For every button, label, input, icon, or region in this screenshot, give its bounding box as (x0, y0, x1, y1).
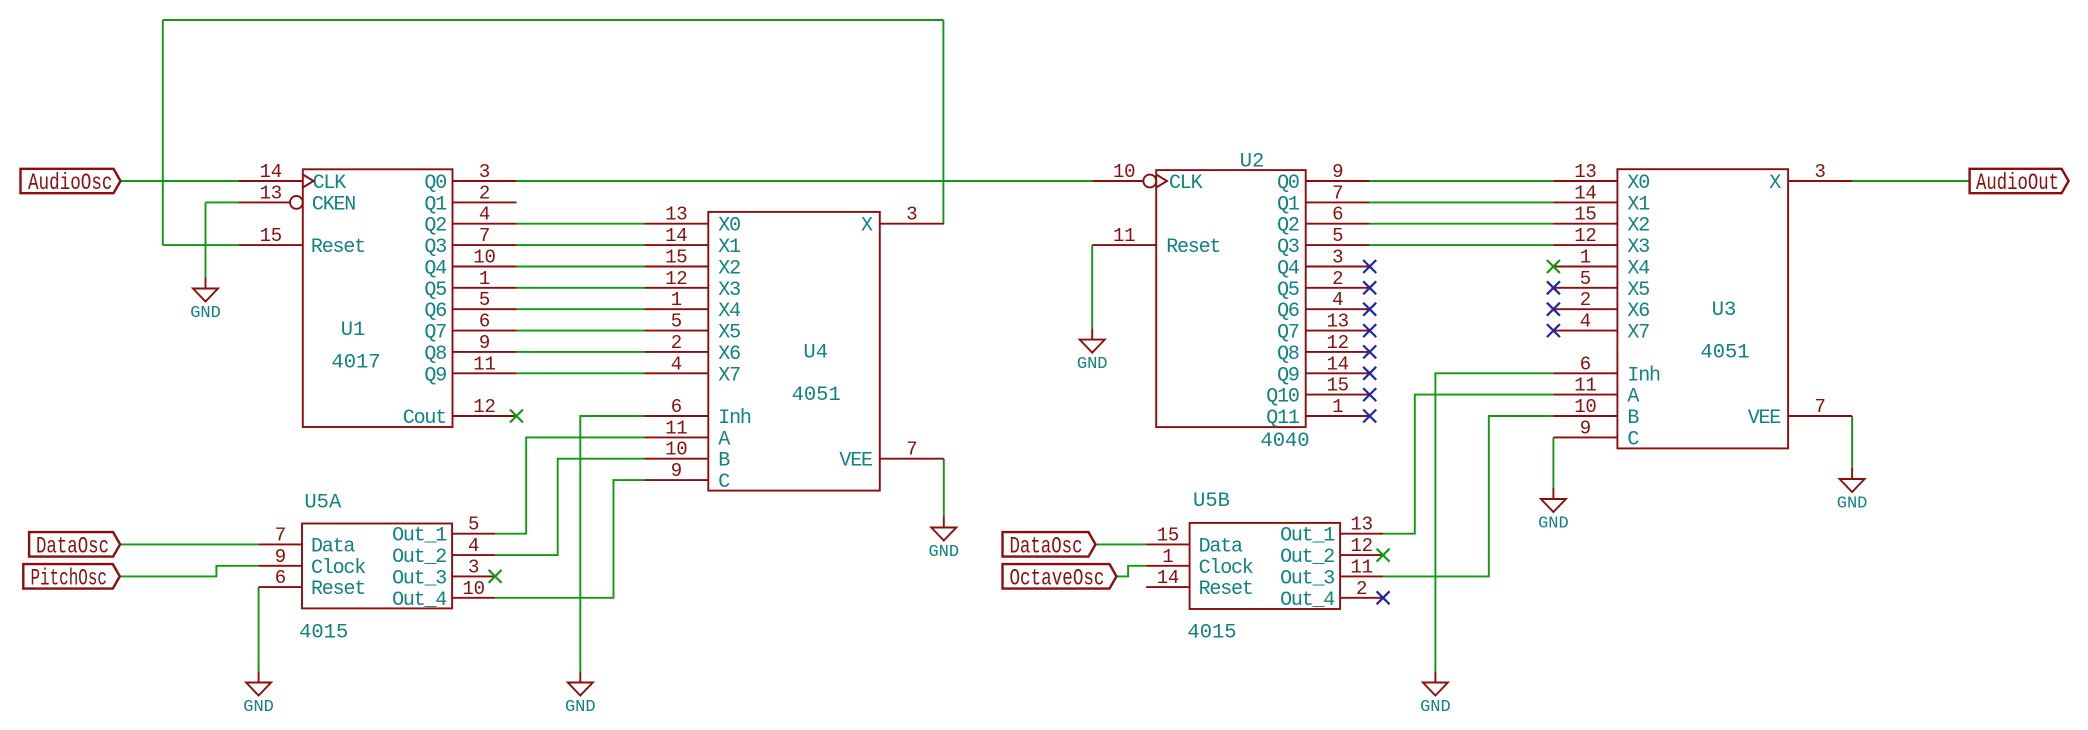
wire U2 Q0 to U3 X0 (1370, 180, 1554, 182)
U1 pin 13 CKEN (inverted) (239, 182, 303, 208)
no-connect U3 X5 pin 5 (1547, 281, 1560, 294)
svg-text:GND: GND (1837, 495, 1868, 514)
svg-text:10: 10 (665, 439, 687, 461)
svg-text:6: 6 (1580, 353, 1591, 375)
svg-text:11: 11 (665, 417, 687, 439)
U3 pin 4 X7 (1553, 311, 1617, 333)
svg-text:Q3: Q3 (424, 236, 446, 259)
svg-text:PitchOsc: PitchOsc (31, 565, 108, 591)
svg-text:Reset: Reset (311, 578, 365, 601)
svg-text:13: 13 (260, 182, 282, 204)
no-connect U5B Out_2 pin 12 (1377, 549, 1390, 562)
ground GND for U3 Inh net (1420, 672, 1451, 718)
svg-text:X: X (861, 215, 873, 238)
svg-text:Q10: Q10 (1266, 386, 1299, 409)
no-connect U2 Q11 (1363, 410, 1376, 423)
U1 pin 1 Q5 (453, 268, 517, 290)
svg-text:14: 14 (665, 225, 687, 247)
svg-text:B: B (1627, 407, 1639, 430)
svg-text:Q1: Q1 (1277, 193, 1300, 216)
svg-text:U3: U3 (1712, 299, 1737, 322)
svg-text:CKEN: CKEN (312, 193, 355, 216)
svg-text:Q1: Q1 (424, 193, 447, 216)
svg-text:12: 12 (473, 396, 495, 418)
U5A pin 5 Out_1 (452, 514, 495, 536)
wire U1 CKEN pin 13 stub to GND drop (206, 201, 239, 203)
svg-text:C: C (718, 471, 730, 494)
svg-text:11: 11 (1350, 556, 1372, 578)
U1 pin 10 Q4 (453, 247, 517, 269)
svg-text:GND: GND (243, 698, 274, 717)
ground GND under U5A Reset (243, 672, 274, 718)
svg-text:U5A: U5A (304, 491, 342, 514)
no-connect U3 X7 pin 4 (1547, 324, 1560, 337)
svg-text:Out_4: Out_4 (1280, 589, 1334, 612)
wire U2 Reset to ground (1091, 245, 1093, 329)
U5B pin 11 Out_3 (1340, 556, 1383, 578)
svg-text:Q6: Q6 (424, 300, 446, 323)
svg-text:13: 13 (665, 204, 687, 226)
wire U5B Out_3 to U3 B (1383, 416, 1553, 576)
svg-text:Reset: Reset (1199, 578, 1253, 601)
svg-text:7: 7 (1332, 182, 1343, 204)
no-connect U3 X4 pin 1 (1547, 260, 1560, 273)
U5B pin 1 Clock (1146, 546, 1189, 568)
svg-text:Q7: Q7 (424, 322, 446, 345)
svg-text:9: 9 (1332, 161, 1343, 183)
svg-text:1: 1 (671, 289, 682, 311)
svg-text:Data: Data (311, 535, 355, 558)
svg-text:GND: GND (1538, 515, 1569, 534)
ground GND under U3 C (1538, 488, 1569, 534)
svg-text:7: 7 (906, 439, 917, 461)
svg-text:B: B (718, 450, 730, 473)
svg-text:9: 9 (671, 460, 682, 482)
svg-text:4040: 4040 (1260, 430, 1309, 453)
svg-text:Q9: Q9 (1277, 364, 1299, 387)
global label DataOsc (left) (29, 532, 120, 559)
U2 pin 11 Reset (1092, 225, 1156, 247)
svg-text:7: 7 (479, 225, 490, 247)
wire PitchOsc to U5A Clock (120, 566, 259, 577)
global label AudioOut (output) (1970, 169, 2069, 196)
svg-text:2: 2 (1332, 268, 1343, 290)
svg-text:X1: X1 (1627, 193, 1650, 216)
svg-text:DataOsc: DataOsc (1010, 533, 1083, 559)
wire feedback into U1 Reset pin 15 (163, 244, 239, 246)
svg-text:Data: Data (1199, 535, 1243, 558)
svg-text:5: 5 (1580, 268, 1591, 290)
U3 pin 10 B (1553, 396, 1617, 418)
svg-text:14: 14 (260, 161, 282, 183)
U1 pin 11 Q9 (453, 353, 517, 375)
svg-text:13: 13 (1326, 311, 1348, 333)
svg-text:2: 2 (479, 182, 490, 204)
U3 pin 9 C (1553, 417, 1617, 439)
svg-text:X4: X4 (718, 300, 740, 323)
U3 pin 3 X output (1788, 161, 1852, 183)
no-connect U2 Q10 (1363, 388, 1376, 401)
svg-text:CLK: CLK (313, 172, 347, 195)
no-connect U5B Out_4 pin 2 (1377, 591, 1390, 604)
svg-text:1: 1 (479, 268, 490, 290)
svg-text:Out_4: Out_4 (392, 589, 446, 612)
svg-text:6: 6 (275, 567, 286, 589)
svg-text:5: 5 (468, 514, 479, 536)
U2 pin 4 Q6 (1306, 289, 1370, 311)
wire U5B Out_1 to U3 A (1383, 395, 1553, 534)
svg-text:2: 2 (671, 332, 682, 354)
svg-text:3: 3 (479, 161, 490, 183)
svg-text:GND: GND (928, 543, 959, 562)
svg-text:VEE: VEE (1748, 407, 1781, 430)
U5B pin 14 Reset (1146, 567, 1189, 589)
svg-text:11: 11 (1574, 375, 1596, 397)
U5A pin 3 Out_3 (452, 556, 495, 578)
svg-text:X4: X4 (1627, 258, 1649, 281)
U4 pin 2 X6 (644, 332, 708, 354)
no-connect U2 Q9 (1363, 367, 1376, 380)
no-connect U2 Q4 (1363, 260, 1376, 273)
wire U1 Q6 to U4 X4 (517, 308, 645, 310)
no-connect U2 Q5 (1363, 281, 1376, 294)
U3 pin 12 X3 (1553, 225, 1617, 247)
svg-text:GND: GND (565, 698, 596, 717)
global label DataOsc (right) (1003, 532, 1096, 559)
U3 pin 2 X6 (1553, 289, 1617, 311)
ground GND under U3 VEE (1837, 468, 1868, 514)
svg-text:10: 10 (1113, 161, 1135, 183)
svg-text:4015: 4015 (299, 622, 348, 645)
U1 pin 9 Q8 (453, 332, 517, 354)
svg-text:C: C (1627, 428, 1639, 451)
U1 pin 7 Q3 (453, 225, 517, 247)
wire U2 Q2 to U3 X2 (1370, 223, 1554, 225)
U1 pin 6 Q7 (453, 311, 517, 333)
ground GND under U4 VEE (928, 517, 959, 563)
svg-text:AudioOsc: AudioOsc (28, 170, 113, 196)
svg-text:15: 15 (260, 225, 282, 247)
global label AudioOsc (input) (21, 169, 121, 196)
svg-text:12: 12 (1574, 225, 1596, 247)
global label OctaveOsc (1003, 564, 1117, 591)
svg-text:X3: X3 (718, 279, 740, 302)
svg-text:12: 12 (1326, 332, 1348, 354)
U3 pin 5 X5 (1553, 268, 1617, 290)
U4 pin 5 X5 (644, 311, 708, 333)
svg-text:AudioOut: AudioOut (1976, 170, 2059, 196)
svg-text:Q7: Q7 (1277, 322, 1299, 345)
wire U4 Inh to ground (580, 416, 644, 672)
no-connect U1 Cout pin 12 (510, 410, 523, 423)
IC body U2 (4040 binary counter) (1156, 150, 1309, 453)
svg-text:1: 1 (1332, 396, 1343, 418)
wire feedback right vertical down to U4 X pin (942, 20, 944, 224)
svg-text:X0: X0 (1627, 172, 1649, 195)
U4 pin 9 C (644, 460, 708, 482)
IC body U5B (4015 shift register) (1187, 490, 1340, 645)
U4 pin 6 Inh (644, 396, 708, 418)
svg-text:4: 4 (1332, 289, 1343, 311)
svg-text:X5: X5 (718, 322, 740, 345)
svg-text:9: 9 (479, 332, 490, 354)
svg-text:6: 6 (671, 396, 682, 418)
global label PitchOsc (23, 564, 120, 591)
svg-text:X1: X1 (718, 236, 741, 259)
svg-text:Reset: Reset (1166, 236, 1220, 259)
wire U5A Out_4 to U4 C (495, 480, 644, 598)
ground GND for U4 Inh net (565, 672, 596, 718)
svg-text:Out_2: Out_2 (392, 546, 446, 569)
svg-text:15: 15 (1574, 204, 1596, 226)
svg-text:Reset: Reset (311, 236, 365, 259)
svg-text:4051: 4051 (1700, 342, 1749, 365)
svg-text:GND: GND (1420, 698, 1451, 717)
svg-text:Inh: Inh (718, 407, 751, 430)
svg-text:6: 6 (479, 311, 490, 333)
svg-text:4: 4 (479, 204, 490, 226)
U3 pin 13 X0 (1553, 161, 1617, 183)
svg-text:X0: X0 (718, 215, 740, 238)
svg-text:11: 11 (473, 353, 495, 375)
U5B pin 12 Out_2 (1340, 535, 1383, 557)
IC body U5A (4015 shift register) (299, 491, 452, 644)
svg-text:11: 11 (1113, 225, 1135, 247)
U5A pin 7 Data (259, 524, 302, 546)
svg-text:Cout: Cout (403, 407, 446, 430)
U2 pin 7 Q1 (1306, 182, 1370, 204)
svg-text:9: 9 (1580, 417, 1591, 439)
svg-text:Q0: Q0 (424, 172, 446, 195)
svg-text:Clock: Clock (1199, 557, 1253, 580)
wire U1 Q9 to U4 X7 (517, 372, 645, 374)
svg-text:X7: X7 (718, 364, 740, 387)
svg-text:Q0: Q0 (1277, 172, 1299, 195)
svg-text:U1: U1 (341, 319, 366, 342)
svg-text:4051: 4051 (792, 384, 841, 407)
svg-text:13: 13 (1574, 161, 1596, 183)
U5B pin 13 Out_1 (1340, 514, 1383, 536)
U2 pin 6 Q2 (1306, 204, 1370, 226)
svg-text:4017: 4017 (331, 352, 380, 375)
svg-text:Inh: Inh (1627, 364, 1660, 387)
U4 pin 13 X0 (644, 204, 708, 226)
U1 pin 3 Q0 (453, 161, 517, 183)
svg-text:Q8: Q8 (424, 343, 446, 366)
U4 pin 3 X output (880, 204, 944, 226)
svg-text:3: 3 (1332, 247, 1343, 269)
U2 pin 1 Q11 (1306, 396, 1370, 418)
wire vertical CKEN net down to ground (205, 202, 207, 277)
svg-text:Q8: Q8 (1277, 343, 1299, 366)
U1 pin 15 Reset (239, 225, 303, 247)
wire AudioOsc to U1 CLK pin (121, 180, 239, 182)
wire U1 Q5 to U4 X3 (517, 287, 645, 289)
U5A pin 6 Reset (259, 567, 302, 589)
svg-text:X: X (1769, 172, 1781, 195)
U2 pin 3 Q4 (1306, 247, 1370, 269)
svg-text:4: 4 (468, 535, 479, 557)
ground GND under U2 Reset (1077, 329, 1108, 375)
svg-text:A: A (1627, 386, 1639, 409)
svg-text:OctaveOsc: OctaveOsc (1010, 565, 1105, 591)
svg-text:A: A (718, 428, 730, 451)
svg-text:13: 13 (1350, 514, 1372, 536)
U3 pin 15 X2 (1553, 204, 1617, 226)
svg-text:Q9: Q9 (424, 364, 446, 387)
wire DataOsc to U5B Data (1096, 543, 1147, 545)
svg-text:1: 1 (1162, 546, 1173, 568)
svg-text:Q2: Q2 (424, 215, 446, 238)
svg-text:14: 14 (1574, 182, 1596, 204)
IC body U3 (4051 analog multiplexer) (1617, 169, 1788, 451)
wire U5A Out_1 to U4 A (495, 437, 644, 533)
wire U5A Reset to ground (258, 587, 260, 671)
svg-text:3: 3 (906, 204, 917, 226)
svg-text:Out_1: Out_1 (392, 525, 447, 548)
wire DataOsc to U5A Data (120, 543, 259, 545)
U2 pin 2 Q5 (1306, 268, 1370, 290)
U1 pin 14 CLK (239, 161, 314, 188)
wire U1 Q8 to U4 X6 (517, 351, 645, 353)
svg-text:X3: X3 (1627, 236, 1649, 259)
U1 pin 12 Cout (453, 396, 517, 418)
svg-text:4: 4 (671, 353, 682, 375)
svg-text:5: 5 (1332, 225, 1343, 247)
U1 pin 4 Q2 (453, 204, 517, 226)
svg-text:10: 10 (1574, 396, 1596, 418)
U2 pin 10 CLK (inverted clock) (1092, 161, 1167, 188)
U3 pin 7 VEE (1788, 396, 1852, 418)
U5A pin 9 Clock (259, 546, 302, 568)
U3 pin 6 Inh (1553, 353, 1617, 375)
no-connect U2 Q6 (1363, 303, 1376, 316)
svg-text:X6: X6 (718, 343, 740, 366)
U4 pin 10 B (644, 439, 708, 461)
wire OctaveOsc to U5B Clock (1117, 566, 1147, 577)
U2 pin 14 Q9 (1306, 353, 1370, 375)
svg-text:U4: U4 (803, 342, 828, 365)
svg-text:Q11: Q11 (1266, 407, 1300, 430)
U3 pin 1 X4 (1553, 247, 1617, 269)
no-connect U2 Q8 (1363, 345, 1376, 358)
svg-text:Clock: Clock (311, 557, 365, 580)
svg-text:2: 2 (1356, 578, 1367, 600)
wire U1 Q7 to U4 X5 (517, 330, 645, 332)
svg-text:GND: GND (1077, 355, 1108, 374)
wire feedback U4 X output: top horizontal run (163, 19, 944, 21)
svg-text:10: 10 (473, 247, 495, 269)
wire U3 Inh to ground (1435, 373, 1553, 671)
svg-text:Q5: Q5 (424, 279, 446, 302)
svg-text:X6: X6 (1627, 300, 1649, 323)
U4 pin 7 VEE (880, 439, 944, 461)
no-connect U2 Q7 (1363, 324, 1376, 337)
svg-text:4: 4 (1580, 311, 1591, 333)
wire feedback left vertical down to U1 Reset row (162, 20, 164, 245)
svg-text:9: 9 (275, 546, 286, 568)
svg-text:3: 3 (1814, 161, 1825, 183)
svg-text:5: 5 (479, 289, 490, 311)
U3 pin 14 X1 (1553, 182, 1617, 204)
svg-text:4015: 4015 (1187, 621, 1236, 644)
U4 pin 1 X4 (644, 289, 708, 311)
svg-text:Out_3: Out_3 (1280, 567, 1334, 590)
svg-text:12: 12 (1350, 535, 1372, 557)
wire U3 C to ground (1552, 437, 1554, 488)
no-connect U3 X6 pin 2 (1547, 303, 1560, 316)
svg-text:CLK: CLK (1169, 172, 1203, 195)
svg-text:2: 2 (1580, 289, 1591, 311)
U1 pin 5 Q6 (453, 289, 517, 311)
svg-text:10: 10 (462, 578, 484, 600)
svg-text:U5B: U5B (1193, 490, 1230, 513)
svg-text:X5: X5 (1627, 279, 1649, 302)
svg-text:Out_1: Out_1 (1280, 525, 1335, 548)
svg-text:1: 1 (1580, 247, 1591, 269)
wire U4 VEE to ground (943, 459, 945, 517)
svg-text:Q6: Q6 (1277, 300, 1299, 323)
U4 pin 4 X7 (644, 353, 708, 375)
U4 pin 12 X3 (644, 268, 708, 290)
wire U5A Out_2 to U4 B (495, 459, 644, 555)
U2 pin 15 Q10 (1306, 375, 1370, 397)
svg-text:7: 7 (1814, 396, 1825, 418)
svg-text:Q2: Q2 (1277, 215, 1299, 238)
U4 pin 14 X1 (644, 225, 708, 247)
svg-text:14: 14 (1326, 353, 1348, 375)
wire U1 Q0 to U2 CLK (long net) (517, 180, 1093, 182)
U5B pin 2 Out_4 (1340, 578, 1383, 600)
U4 pin 15 X2 (644, 247, 708, 269)
no-connect U5A Out_3 pin 3 (489, 570, 502, 583)
wire U3 X output to AudioOut label (1852, 180, 1970, 182)
svg-text:X7: X7 (1627, 322, 1649, 345)
svg-text:Q4: Q4 (1277, 258, 1299, 281)
svg-text:U2: U2 (1240, 150, 1265, 173)
svg-text:3: 3 (468, 556, 479, 578)
wire U3 VEE to ground (1851, 416, 1853, 468)
svg-text:12: 12 (665, 268, 687, 290)
U5B pin 15 Data (1146, 524, 1189, 546)
svg-text:X2: X2 (1627, 215, 1649, 238)
svg-text:15: 15 (665, 247, 687, 269)
IC body U4 (4051 analog multiplexer) (708, 212, 880, 494)
wire U1 Q2 to U4 X0 (517, 223, 645, 225)
svg-text:Q3: Q3 (1277, 236, 1299, 259)
svg-text:VEE: VEE (839, 450, 872, 473)
U2 pin 9 Q0 (1306, 161, 1370, 183)
U1 pin 2 Q1 (453, 182, 517, 204)
wire U1 Q3 to U4 X1 (517, 244, 645, 246)
svg-text:GND: GND (190, 304, 221, 323)
U5A pin 4 Out_2 (452, 535, 495, 557)
wire U2 Q3 to U3 X3 (1370, 244, 1554, 246)
svg-text:5: 5 (671, 311, 682, 333)
svg-text:X2: X2 (718, 258, 740, 281)
U5A pin 10 Out_4 (452, 578, 495, 600)
svg-text:Q4: Q4 (424, 258, 446, 281)
wire U2 Q1 to U3 X1 (1370, 201, 1554, 203)
svg-text:14: 14 (1157, 567, 1179, 589)
svg-text:7: 7 (275, 524, 286, 546)
U2 pin 12 Q8 (1306, 332, 1370, 354)
U2 pin 5 Q3 (1306, 225, 1370, 247)
op-amp-style IC body U1 (4017 decade counter) (303, 169, 453, 430)
svg-text:DataOsc: DataOsc (36, 533, 109, 559)
svg-text:Q5: Q5 (1277, 279, 1299, 302)
U4 pin 11 A (644, 417, 708, 439)
